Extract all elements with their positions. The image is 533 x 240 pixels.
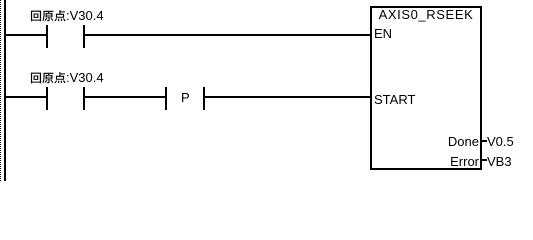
contact 回原点:V30.4 left bar xyxy=(46,25,48,48)
positive edge contact P left bar xyxy=(165,87,167,110)
positive edge contact letter P xyxy=(181,92,190,104)
block input pin EN xyxy=(374,28,392,40)
output operand VB3 xyxy=(487,156,512,168)
block input pin START xyxy=(374,94,415,106)
contact 回原点:V30.4 rung2 right bar xyxy=(83,87,85,110)
contact 回原点:V30.4 right bar xyxy=(83,25,85,48)
contact I label 回原点:V30.4 (rung 1) xyxy=(30,10,66,23)
output operand V0.5 xyxy=(487,136,514,148)
function block AXIS0_RSEEK box xyxy=(370,6,482,170)
contact 回原点:V30.4 rung2 left bar xyxy=(46,87,48,110)
block output pin Error xyxy=(370,156,479,168)
wire rung2 P contact to block START xyxy=(205,96,370,98)
block output pin Done xyxy=(370,136,479,148)
wire rung1 contact to block EN xyxy=(85,34,370,36)
output stub wire Done xyxy=(482,140,487,142)
contact II label 回原点:V30.4 (rung 2) xyxy=(30,72,66,85)
positive edge contact P right bar xyxy=(203,87,205,110)
left power rail xyxy=(4,0,6,181)
block title AXIS0_RSEEK xyxy=(370,9,482,21)
wire rung2 contact to P contact xyxy=(85,96,165,98)
left margin dotted guide line xyxy=(0,0,1,181)
wire rung1 rail to contact xyxy=(6,34,46,36)
wire rung2 rail to contact xyxy=(6,96,46,98)
output stub wire Error xyxy=(482,159,487,161)
